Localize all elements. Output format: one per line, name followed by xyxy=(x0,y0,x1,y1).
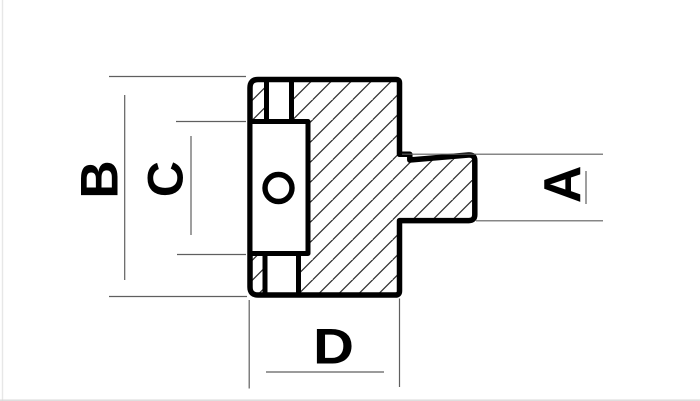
slot rectangle outline xyxy=(250,122,308,254)
dimension D right extension line xyxy=(399,299,401,388)
bottom channel left wall xyxy=(263,255,268,295)
bottom channel right wall xyxy=(296,255,301,295)
top channel right wall xyxy=(289,80,294,120)
dimension C top extension line xyxy=(176,121,246,123)
svg-text:B: B xyxy=(71,160,130,198)
svg-text:C: C xyxy=(138,161,194,197)
svg-text:D: D xyxy=(313,319,354,374)
faint page border bottom xyxy=(0,399,700,401)
dimension B line xyxy=(124,95,126,280)
body outer outline xyxy=(250,80,475,296)
dimension D left extension line xyxy=(248,300,250,389)
dimension D line xyxy=(266,371,384,373)
hole circle xyxy=(265,175,292,202)
svg-text:A: A xyxy=(534,166,592,204)
dimension C line xyxy=(190,136,192,235)
dimension A top extension line xyxy=(402,153,603,155)
dimension B top extension line xyxy=(109,76,246,78)
dimension A bottom extension line xyxy=(476,220,603,222)
dimension B bottom extension line xyxy=(109,296,247,298)
faint page border left xyxy=(2,0,4,401)
hatched section fill (body + spigot minus slot and channels) xyxy=(250,80,475,296)
top channel left wall xyxy=(264,80,269,120)
dimension C bottom extension line xyxy=(177,254,246,256)
dimension A line xyxy=(585,171,587,204)
